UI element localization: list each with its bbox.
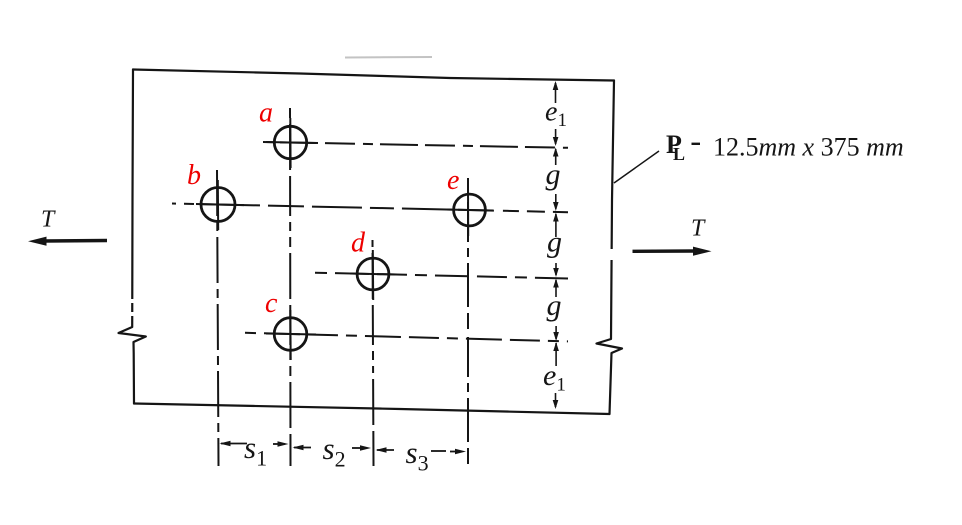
force arrow T right: [633, 247, 712, 256]
svg-text:T: T: [41, 207, 56, 233]
column centerline b: [217, 170, 219, 466]
svg-text:g: g: [547, 289, 562, 322]
svg-text:s2: s2: [323, 431, 346, 472]
faint scan streak above top edge: [345, 56, 432, 59]
dimension chain line e1 bottom: [553, 342, 559, 409]
white gap on left edge (scan dash): [132, 249, 611, 316]
plate outline: [119, 70, 623, 415]
plate symbol PL: [666, 130, 685, 164]
plate label dash: [692, 143, 701, 145]
svg-text:s3: s3: [406, 435, 429, 476]
force arrow T left: [28, 237, 107, 246]
hole c: [266, 310, 316, 360]
dimension chain line g1: [553, 148, 559, 212]
hole b: [196, 180, 244, 230]
row centerline b-e: [172, 204, 568, 213]
svg-text:c: c: [265, 288, 278, 319]
svg-text:b: b: [187, 160, 201, 191]
column centerline a-c: [289, 108, 292, 466]
svg-text:g: g: [546, 158, 561, 191]
svg-text:T: T: [691, 216, 706, 242]
svg-text:d: d: [351, 228, 366, 259]
dimension s1: [220, 441, 289, 447]
svg-text:12.5mm x 375 mm: 12.5mm x 375 mm: [713, 133, 904, 162]
leader line to plate label: [614, 151, 659, 183]
hole a: [266, 118, 316, 168]
row centerline c: [245, 333, 568, 342]
column centerline d: [373, 240, 374, 466]
svg-text:e1: e1: [543, 359, 566, 396]
svg-text:L: L: [673, 144, 685, 164]
dimension chain line e1 top: [553, 81, 559, 146]
svg-text:a: a: [259, 98, 273, 129]
dimension chain line g3: [553, 279, 559, 342]
hole d: [350, 250, 397, 300]
dimension chain line g2: [553, 213, 559, 278]
svg-text:s1: s1: [244, 430, 267, 471]
row centerline a: [263, 142, 568, 148]
hole e: [446, 186, 493, 236]
dimension s2: [293, 445, 372, 451]
svg-text:e1: e1: [545, 97, 567, 132]
column centerline e: [467, 178, 469, 466]
svg-text:e: e: [447, 165, 459, 196]
dimension s3: [376, 447, 467, 454]
row centerline d: [315, 273, 568, 279]
svg-text:g: g: [547, 226, 562, 259]
